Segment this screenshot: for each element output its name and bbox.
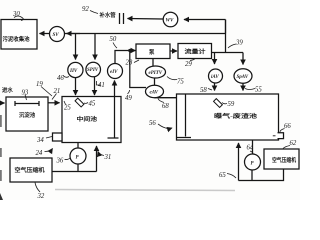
- svg-text:补水管: 补水管: [99, 11, 117, 19]
- leader 64: [250, 151, 253, 154]
- leader 65: [227, 174, 236, 179]
- svg-text:62: 62: [290, 140, 297, 147]
- wire: bypass line 49: [130, 51, 146, 88]
- svg-text:29: 29: [185, 61, 192, 68]
- svg-text:58: 58: [200, 87, 207, 94]
- wire: eIV up to pump 28: [115, 51, 130, 64]
- valve WV: [163, 12, 178, 27]
- svg-text:92: 92: [82, 6, 89, 13]
- svg-text:93: 93: [22, 90, 29, 97]
- svg-text:55: 55: [255, 87, 262, 94]
- wire: IIV to middle tank: [75, 78, 77, 95]
- svg-text:30: 30: [12, 11, 20, 18]
- wire: SPIV to middle tank: [94, 77, 96, 95]
- svg-text:46: 46: [57, 75, 64, 82]
- leader 56: [158, 124, 172, 129]
- leader 29: [190, 59, 195, 61]
- eAV pipe re-draw into tank: [155, 97, 177, 99]
- wire: drop to SPIV: [94, 34, 96, 60]
- wire: pump down to ePITV: [152, 59, 154, 67]
- leader 45: [84, 102, 88, 105]
- svg-text:eAV: eAV: [150, 91, 159, 96]
- leader 66: [280, 129, 285, 133]
- label 30: [0, 0, 1, 1]
- suction pipe inside middle tank: [114, 97, 116, 139]
- wire: drop to SpAV: [242, 53, 244, 65]
- leader 93: [25, 95, 27, 101]
- leader 25: [64, 101, 66, 105]
- outlet box 66: [278, 133, 284, 139]
- svg-text:24: 24: [36, 150, 43, 157]
- valve SPIV: [86, 62, 101, 77]
- svg-text:21: 21: [54, 88, 61, 95]
- svg-text:SpAV: SpAV: [237, 75, 249, 80]
- svg-text:IIV: IIV: [69, 69, 78, 74]
- svg-text:50: 50: [110, 36, 117, 43]
- wire: sedimentation to middle tank (21): [48, 102, 60, 104]
- tank: air compressor right (62): [264, 149, 299, 169]
- leader 92: [90, 11, 98, 14]
- svg-text:eIV: eIV: [110, 70, 118, 75]
- valve ePITV: [146, 66, 166, 78]
- svg-text:56: 56: [149, 120, 156, 127]
- leader 58: [208, 89, 212, 91]
- wire: ePITV to eAV: [154, 78, 156, 86]
- leader 59: [222, 103, 227, 104]
- svg-text:68: 68: [162, 103, 169, 110]
- svg-text:65: 65: [219, 172, 226, 179]
- wire: drop to IIV: [75, 34, 77, 60]
- leader 75: [167, 77, 177, 80]
- svg-text:泵: 泵: [149, 48, 155, 56]
- pump P left (36): [77, 143, 79, 149]
- scan artifacts: [0, 115, 2, 181]
- svg-text:31: 31: [104, 154, 112, 161]
- wire: eAV into aeration tank: [155, 97, 177, 99]
- leader 68: [158, 99, 164, 103]
- tank: middle tank (27): [62, 97, 121, 143]
- wire: pump to flow meter: [170, 50, 177, 52]
- leader 46: [63, 76, 69, 78]
- svg-text:WV: WV: [166, 19, 174, 24]
- wire: iAV into aeration tank (58): [214, 83, 216, 91]
- svg-text:流量计: 流量计: [185, 48, 207, 56]
- wire: WV line to makeup water: [184, 19, 226, 21]
- leader 31: [98, 152, 104, 156]
- svg-text:SPIV: SPIV: [87, 68, 99, 73]
- outlet box 34: [53, 133, 63, 141]
- svg-text:中间池: 中间池: [77, 115, 98, 123]
- leader 28: [134, 60, 139, 63]
- leader 32: [35, 183, 40, 193]
- leader 55: [245, 89, 255, 90]
- pump P right (64): [252, 140, 254, 154]
- svg-text:49: 49: [125, 95, 132, 102]
- leader 24: [45, 149, 53, 152]
- wire: influent arrow: [0, 102, 5, 104]
- leader 62: [283, 146, 290, 149]
- svg-text:19: 19: [36, 81, 43, 88]
- svg-text:34: 34: [36, 137, 44, 144]
- tank: sludge collection tank (30): [1, 20, 37, 50]
- valve SV: [50, 27, 65, 42]
- svg-text:39: 39: [235, 40, 243, 47]
- wire: compressor to middle tank air: [52, 171, 97, 173]
- wire: flow meter manifold right: [212, 52, 244, 54]
- wire: line A from SV to right manifold: [40, 33, 50, 35]
- svg-text:59: 59: [228, 101, 235, 108]
- wire: drop to iAV: [214, 53, 216, 65]
- spray valve 59: [214, 99, 223, 108]
- leader 39: [228, 44, 236, 48]
- svg-text:75: 75: [177, 79, 184, 86]
- svg-text:曝气-废渣池: 曝气-废渣池: [214, 112, 258, 120]
- leader 34: [46, 137, 52, 139]
- wire: suction pipe from middle tank through eIV: [114, 84, 116, 138]
- svg-text:64: 64: [247, 145, 254, 152]
- influent distributor (93): [15, 103, 39, 105]
- svg-text:32: 32: [37, 193, 45, 200]
- leader 36: [65, 158, 71, 160]
- valve eAV: [146, 85, 164, 97]
- pump box 28: [136, 44, 170, 59]
- svg-text:进水: 进水: [2, 86, 13, 94]
- svg-text:45: 45: [89, 101, 96, 108]
- tank: sedimentation tank (19): [6, 97, 48, 131]
- svg-text:污泥收集池: 污泥收集池: [3, 35, 31, 43]
- baffle inside aeration tank: [185, 94, 187, 137]
- svg-text:SV: SV: [53, 33, 60, 38]
- svg-text:空气压缩机: 空气压缩机: [15, 166, 46, 174]
- valve SpAV: [234, 69, 252, 83]
- wire: SpAV into aeration tank (55): [242, 83, 244, 90]
- tank: air compressor left (32): [10, 158, 52, 182]
- leader 19: [41, 87, 52, 97]
- wire: compressor air loop to aeration tank: [239, 169, 284, 181]
- svg-text:ePITV: ePITV: [149, 71, 163, 76]
- svg-text:25: 25: [64, 105, 71, 112]
- svg-text:36: 36: [56, 158, 64, 165]
- svg-text:空气压缩机: 空气压缩机: [272, 156, 297, 164]
- leader squiggles: [14, 11, 290, 193]
- tank: aeration tank: [177, 94, 279, 140]
- svg-text:41: 41: [98, 82, 105, 89]
- svg-text:沉淀池: 沉淀池: [19, 111, 36, 119]
- leader 41: [97, 81, 101, 85]
- valve eIV: [108, 64, 123, 79]
- makeup water pipe symbol (92): [119, 13, 121, 24]
- svg-text:iAV: iAV: [211, 75, 219, 80]
- svg-text:66: 66: [284, 123, 291, 130]
- svg-text:28: 28: [126, 60, 133, 67]
- flow meter box 29: [178, 44, 212, 59]
- valve IIV: [68, 62, 83, 77]
- leader 30: [14, 16, 23, 21]
- leader 50: [113, 43, 117, 49]
- valve iAV: [209, 69, 223, 83]
- leader 49: [128, 90, 130, 94]
- leader 21: [52, 94, 57, 100]
- spray valve 45: [75, 98, 84, 107]
